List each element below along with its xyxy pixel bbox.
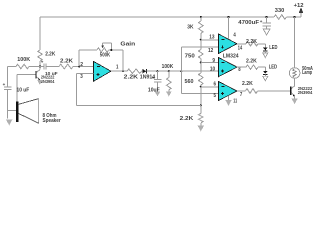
svg-text:LED: LED bbox=[269, 45, 278, 51]
capacitor 4700uF bbox=[238, 17, 270, 29]
wire pin4 supply bbox=[228, 17, 230, 39]
+12 supply arrow bbox=[294, 3, 304, 17]
svg-text:3: 3 bbox=[80, 74, 83, 80]
resistor 2.2K (collector load) bbox=[38, 50, 56, 61]
svg-text:2.2K: 2.2K bbox=[180, 116, 194, 122]
svg-text:10 uF: 10 uF bbox=[17, 87, 30, 93]
svg-text:9: 9 bbox=[212, 58, 215, 64]
wire signal bus vertical bbox=[180, 47, 182, 94]
resistor 3K bbox=[187, 17, 203, 40]
wire output 8 bbox=[237, 66, 246, 68]
node lamp feed bbox=[293, 16, 295, 18]
wire lamp feed bbox=[294, 17, 296, 68]
svg-text:8: 8 bbox=[238, 67, 240, 73]
ground below bleed resistor bbox=[166, 92, 171, 97]
transistor Q1 2N2222/2N3904 bbox=[17, 67, 55, 85]
svg-text:+: + bbox=[3, 82, 6, 87]
wire output 7 bbox=[237, 90, 246, 92]
ground ladder bottom bbox=[198, 126, 204, 132]
op-amp U1A LM324 (pins 2,3,1) bbox=[80, 62, 118, 82]
wire to pin 13 bbox=[201, 39, 219, 41]
resistor 2.2K (rectifier) bbox=[124, 69, 142, 81]
svg-text:11: 11 bbox=[233, 99, 237, 105]
svg-text:2N3904: 2N3904 bbox=[298, 90, 313, 96]
op-amp U1C LM324 (pins 9,10,8) bbox=[210, 58, 241, 77]
wire +12 supply rail (top) bbox=[40, 16, 301, 18]
resistor 2.2K (LED2) bbox=[246, 59, 265, 70]
ground below Q2 emitter bbox=[292, 99, 298, 104]
svg-text:560: 560 bbox=[185, 79, 194, 85]
svg-text:+: + bbox=[152, 75, 155, 80]
node D ladder bottom bbox=[200, 104, 202, 106]
svg-text:3K: 3K bbox=[187, 25, 193, 31]
capacitor 10uF (peak detector) bbox=[148, 71, 161, 93]
svg-text:2.2K: 2.2K bbox=[45, 52, 55, 58]
svg-text:6: 6 bbox=[214, 82, 217, 88]
svg-text:7: 7 bbox=[240, 92, 242, 98]
node ladder top bbox=[200, 16, 202, 18]
speaker SP1 8-Ohm bbox=[16, 99, 61, 124]
node supply-filter junction bbox=[266, 16, 268, 18]
wire feedback left bbox=[78, 50, 80, 67]
wire ladder to bottom rail bbox=[200, 87, 202, 114]
node feedback junction bbox=[78, 65, 80, 67]
ground below LED D2 bbox=[263, 53, 268, 58]
resistor 2.2K (ladder bottom) bbox=[180, 114, 203, 126]
op-amp U1D LM324 (pins 13,12,14) bbox=[208, 32, 243, 54]
node bleed resistor bbox=[168, 70, 170, 72]
label LM324 bbox=[223, 54, 240, 60]
resistor 560 bbox=[185, 63, 204, 87]
ground below LED D3 bbox=[263, 76, 268, 81]
svg-text:2: 2 bbox=[80, 62, 83, 68]
resistor 100K (bleed) bbox=[162, 64, 174, 92]
svg-text:2.2K: 2.2K bbox=[60, 58, 73, 64]
ground below 4700uF bbox=[263, 29, 270, 35]
svg-text:Speaker: Speaker bbox=[43, 118, 61, 124]
resistor 2.2K (base) bbox=[242, 81, 290, 94]
svg-text:2.2K: 2.2K bbox=[246, 59, 257, 65]
svg-text:330: 330 bbox=[275, 8, 285, 14]
ground pin 11 bbox=[225, 100, 231, 106]
wire base-to-speaker bbox=[16, 74, 18, 102]
svg-text:10: 10 bbox=[210, 67, 215, 73]
capacitor 10uF (series input) bbox=[41, 59, 59, 76]
wire collector lead bbox=[39, 61, 41, 67]
node collector/input junction bbox=[39, 65, 41, 67]
resistor 330 bbox=[274, 8, 287, 19]
wire to pin 5 bbox=[181, 93, 218, 95]
resistor 100K (input bias) bbox=[8, 57, 44, 69]
svg-text:100K: 100K bbox=[17, 57, 30, 63]
node A ladder tap 1 bbox=[200, 39, 202, 41]
wire feedback right bbox=[122, 50, 124, 71]
svg-text:750: 750 bbox=[185, 54, 195, 60]
wire output U1A bbox=[111, 70, 127, 72]
ground below detector cap bbox=[155, 92, 160, 97]
svg-text:LED: LED bbox=[269, 64, 278, 70]
node C ladder tap 3 bbox=[200, 86, 202, 88]
svg-text:+: + bbox=[41, 59, 44, 64]
resistor 2.2K (LED1) bbox=[246, 39, 265, 46]
LED D3 bbox=[263, 64, 277, 76]
node output U1A bbox=[122, 70, 124, 72]
svg-text:+: + bbox=[260, 19, 263, 24]
svg-text:13: 13 bbox=[209, 35, 214, 41]
svg-text:500K: 500K bbox=[100, 52, 110, 58]
node B ladder tap 2 bbox=[200, 62, 202, 64]
svg-text:2.2K: 2.2K bbox=[246, 39, 257, 45]
svg-text:2.2K: 2.2K bbox=[124, 75, 138, 81]
wire speaker return bbox=[8, 109, 16, 111]
svg-text:100K: 100K bbox=[162, 64, 174, 70]
wire to pin 6 bbox=[201, 86, 219, 88]
diode D1 1N914 bbox=[140, 69, 158, 81]
ground below Q1 emitter bbox=[37, 80, 43, 85]
transistor Q2 2N2222/2N3904 bbox=[290, 78, 312, 98]
svg-text:12: 12 bbox=[208, 48, 213, 54]
lamp 50mA bbox=[289, 66, 313, 78]
wire detector bus bbox=[158, 70, 219, 72]
node peak-detector cap bbox=[156, 70, 158, 72]
svg-text:1: 1 bbox=[116, 64, 118, 70]
svg-text:2.2K: 2.2K bbox=[242, 81, 253, 87]
wire top-left drop bbox=[39, 17, 41, 50]
svg-text:4700uF: 4700uF bbox=[238, 20, 259, 26]
svg-text:+12: +12 bbox=[294, 3, 304, 9]
svg-text:5: 5 bbox=[214, 93, 217, 99]
potentiometer 500K Gain bbox=[79, 42, 136, 59]
resistor 2.2K (series input) bbox=[59, 58, 94, 68]
wire to pin 12 bbox=[181, 46, 218, 48]
op-amp U1B LM324 (pins 6,5,7) bbox=[214, 82, 243, 101]
ground speaker branch bbox=[6, 119, 13, 125]
LED D2 bbox=[263, 44, 278, 53]
wire pin3 bias bbox=[77, 74, 94, 106]
svg-text:14: 14 bbox=[238, 46, 243, 52]
svg-text:2N3904: 2N3904 bbox=[41, 79, 55, 85]
node signal bus bbox=[180, 70, 182, 72]
svg-text:LM324: LM324 bbox=[223, 54, 240, 60]
node op-amp V+ feed bbox=[227, 16, 229, 18]
wire bottom rail bbox=[77, 104, 201, 106]
wire pin11 ground lead bbox=[229, 96, 238, 105]
wire to pin 9 bbox=[201, 62, 219, 64]
capacitor 10uF (speaker coupling) bbox=[3, 67, 30, 119]
resistor 750 bbox=[185, 40, 203, 63]
wire output 14 bbox=[237, 43, 246, 45]
svg-text:Lamp: Lamp bbox=[302, 70, 312, 76]
svg-text:Gain: Gain bbox=[120, 42, 136, 48]
